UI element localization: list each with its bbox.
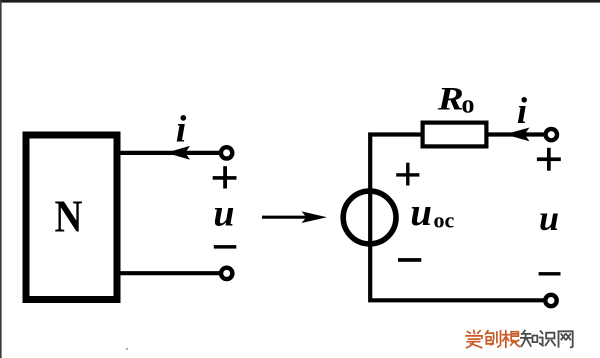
minus sign (source) <box>398 258 421 262</box>
watermark char 知 <box>521 331 537 347</box>
terminal b' (right bottom) <box>545 295 556 306</box>
svg-text:oc: oc <box>434 208 455 233</box>
watermark char 网 <box>559 331 573 347</box>
svg-text:i: i <box>517 91 528 132</box>
watermark char 识 <box>540 331 555 345</box>
wire bottom-left <box>121 271 222 275</box>
network box N <box>26 135 117 300</box>
voltage source Uoc <box>343 191 396 244</box>
wire top-left <box>121 151 222 155</box>
watermark char 根 <box>503 331 520 348</box>
current arrow i (right) <box>505 128 530 142</box>
watermark 爱刨根知识网 <box>466 331 573 348</box>
svg-text:o: o <box>462 90 475 119</box>
wire right loop <box>370 135 546 301</box>
terminal b (left bottom) <box>221 268 232 279</box>
plus sign (right port) <box>537 148 561 171</box>
svg-text:R: R <box>437 81 464 117</box>
minus sign (right port) <box>539 272 561 275</box>
minus sign (left port) <box>214 245 237 249</box>
watermark char 刨 <box>486 331 501 347</box>
svg-text:u: u <box>410 191 432 234</box>
wire resistor to terminal (right top) <box>489 132 547 136</box>
plus sign (source) <box>396 163 419 186</box>
svg-text:N: N <box>55 190 83 241</box>
current arrow i (left) <box>166 146 190 160</box>
svg-text:i: i <box>176 109 187 151</box>
equivalence arrow <box>262 211 327 223</box>
watermark char 爱 <box>466 331 482 348</box>
svg-text:u: u <box>213 193 234 235</box>
plus sign (left port) <box>213 166 237 188</box>
svg-text:u: u <box>539 198 559 238</box>
terminal a (left top) <box>221 147 232 158</box>
terminal a' (right top) <box>546 129 557 140</box>
resistor Ro <box>423 123 487 147</box>
